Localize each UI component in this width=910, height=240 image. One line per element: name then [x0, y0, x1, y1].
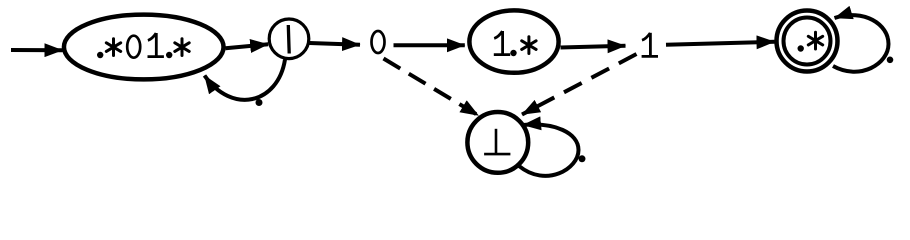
state 1.* (ellipse) [469, 10, 558, 72]
wire .*01.* to | [226, 44, 269, 48]
self loop label . [887, 57, 894, 64]
state | (circle) [269, 19, 309, 59]
label bottom [484, 129, 510, 154]
wire | to 0 [310, 43, 361, 45]
label 1.* [494, 31, 536, 56]
self loop label . [579, 155, 586, 162]
label .*01.* [97, 33, 189, 58]
loop label . [256, 99, 263, 106]
node 0 [372, 31, 385, 53]
node 1 [642, 33, 658, 57]
self loop on bottom [519, 125, 579, 176]
loop arrow | back to .*01.* [205, 60, 286, 100]
label .* [798, 32, 823, 52]
accepting state .* (double circle) [777, 11, 838, 72]
wire 0 to 1.* [394, 43, 465, 47]
state bottom (circle) [467, 112, 528, 173]
state .*01.* (ellipse) [64, 15, 224, 80]
dashed wire 1 to bottom [522, 54, 637, 115]
wire 1 to .* [666, 42, 775, 45]
wire 1.* to 1 [561, 46, 626, 48]
self loop on .* [833, 15, 889, 72]
start arrow [11, 48, 63, 52]
label | [287, 25, 291, 54]
dashed wire 0 to bottom [384, 59, 479, 116]
